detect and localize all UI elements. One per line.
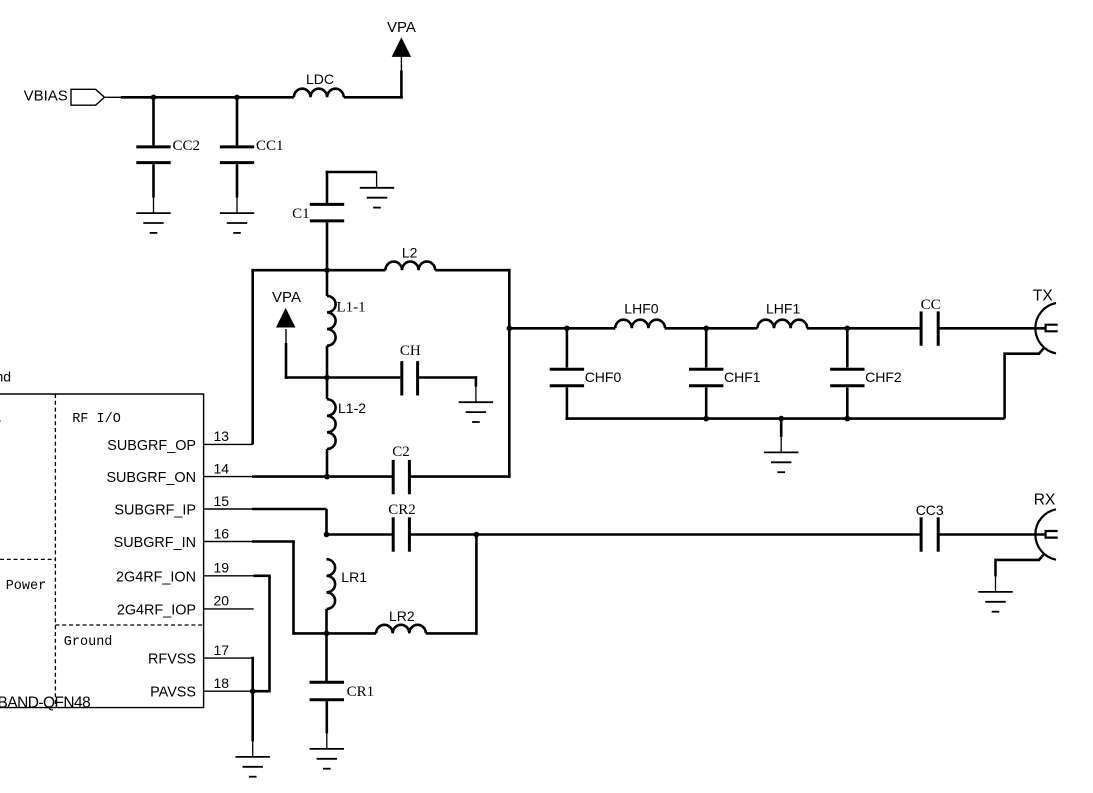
capacitor CC3 [916, 502, 944, 552]
inductor L1-2 [327, 378, 366, 450]
svg-text:CC3: CC3 [916, 502, 944, 518]
wire left rail pin13 [251, 269, 254, 445]
IC label band [0, 369, 11, 385]
capacitor C1 [292, 204, 344, 221]
pin 18 PAVSS [150, 675, 253, 701]
svg-text:14: 14 [214, 460, 230, 476]
capacitor CC2 [136, 138, 200, 162]
capacitor CC1 [220, 138, 284, 162]
IC label Power [6, 579, 47, 594]
wire TX line [509, 327, 1045, 330]
wire L1-1 to node [326, 346, 329, 378]
svg-text:13: 13 [214, 428, 230, 444]
wire bottom rail [252, 475, 511, 478]
ground below CR1 [310, 749, 344, 769]
svg-text:18: 18 [214, 675, 230, 691]
svg-text:VPA: VPA [387, 19, 416, 36]
IC label 1 [0, 412, 1, 427]
svg-text:CH: CH [400, 343, 421, 359]
IC label Ground [64, 635, 113, 650]
node junction CC2 [151, 95, 157, 101]
wire top rail [251, 269, 510, 272]
wire C1 to top rail [326, 223, 329, 271]
wire to CC1 [236, 97, 239, 145]
ground below CC1 [220, 213, 254, 233]
wire pin16 path [252, 542, 327, 635]
wire L1-2 to bottom rail [326, 449, 329, 477]
node junction L1 CH VPA [324, 375, 330, 381]
svg-text:SUBGRF_ON: SUBGRF_ON [106, 470, 196, 486]
svg-text:SUBGRF_IP: SUBGRF_IP [114, 503, 196, 519]
svg-text:CC: CC [921, 297, 941, 313]
inductor LHF0 [615, 301, 665, 329]
svg-text:CC1: CC1 [256, 138, 284, 154]
node junction CHF1 [703, 326, 709, 332]
node junction CHF0 [564, 326, 570, 332]
inductor LR1 [327, 559, 368, 609]
svg-text:PAVSS: PAVSS [150, 685, 196, 701]
wire VBIAS to LDC [105, 96, 294, 98]
svg-text:SUBGRF_IN: SUBGRF_IN [114, 535, 196, 551]
node junction top rail C1 [324, 267, 330, 273]
wire CH to ground [419, 376, 477, 402]
inductor L2 [385, 245, 435, 271]
svg-text:CHF1: CHF1 [724, 369, 761, 385]
connector TX [1033, 288, 1058, 354]
svg-text:LDC: LDC [306, 71, 334, 87]
pin 17 RFVSS [148, 642, 253, 668]
capacitor CC [921, 297, 941, 346]
wire pin14 net [0, 0, 1, 1]
svg-text:1: 1 [0, 412, 1, 427]
wire node to CH [327, 376, 400, 379]
IC section divider vertical dashed [54, 394, 56, 708]
connector RX [1034, 492, 1058, 560]
svg-text:2G4RF_IOP: 2G4RF_IOP [117, 602, 196, 618]
node junction CR2 right [474, 532, 480, 538]
inductor LDC [294, 71, 344, 98]
wire node to CR2 [327, 533, 394, 536]
inductor LHF1 [757, 301, 807, 329]
svg-text:Ground: Ground [64, 635, 113, 650]
pin 15 SUBGRF_IP [114, 493, 252, 519]
wire CR1 to ground [325, 701, 328, 749]
wire pin17 net to ground [251, 657, 254, 757]
svg-text:L1-1: L1-1 [337, 299, 366, 315]
IC label RF I/O [72, 412, 121, 427]
wire RX shield to ground [996, 554, 1045, 592]
pin 19 2G4RF_ION [116, 560, 253, 586]
svg-text:RF I/O: RF I/O [72, 412, 121, 427]
inductor LR2 [376, 608, 426, 633]
svg-text:VPA: VPA [272, 289, 301, 306]
wire filter ground bus [566, 417, 1005, 420]
wire CC1 to ground [236, 164, 239, 213]
wire bus to TX shield [1005, 347, 1045, 418]
wire CC2 to ground [152, 164, 155, 213]
svg-text:CHF2: CHF2 [865, 369, 902, 385]
wire pin15 to CR2 [252, 509, 327, 536]
svg-text:2G4RF_ION: 2G4RF_ION [116, 569, 196, 585]
capacitor CH [400, 343, 421, 396]
svg-text:20: 20 [214, 593, 230, 609]
pin 14 SUBGRF_ON [106, 460, 252, 486]
inductor L1-1 [327, 270, 366, 346]
svg-text:Power: Power [6, 579, 47, 594]
svg-text:CR2: CR2 [388, 502, 416, 518]
svg-text:C2: C2 [392, 444, 410, 460]
capacitor CHF2 [830, 328, 902, 420]
node junction bus ground tap [778, 416, 784, 422]
IC label BAND-QFN48 [0, 694, 90, 711]
capacitor C2 [392, 444, 410, 494]
power VPA 2 [272, 289, 301, 327]
wire node to LR2 [327, 632, 377, 635]
node junction LR2 left [324, 631, 330, 637]
wire LR1 to LR2 line [325, 609, 328, 633]
wire pin19 net [253, 575, 270, 693]
svg-text:nd: nd [0, 369, 11, 385]
capacitor CR1 [310, 682, 375, 700]
svg-text:L1-2: L1-2 [338, 400, 366, 416]
wire bus ground tap [780, 419, 783, 453]
wire right rail [508, 269, 511, 478]
svg-text:L2: L2 [402, 245, 418, 261]
IC section divider ground dashed [55, 624, 203, 626]
node junction bus CHF2 [845, 416, 851, 422]
wire to CC2 [152, 97, 155, 145]
svg-text:CHF0: CHF0 [585, 369, 622, 385]
wire LR2 to CR2 line [426, 535, 477, 635]
node junction bus CHF1 [703, 416, 709, 422]
port VBIAS [24, 88, 105, 106]
node junction CHF2 [845, 326, 851, 332]
wire C1 top to ground [326, 171, 377, 203]
ground below bus [764, 452, 798, 472]
node junction right rail TX tap [507, 326, 513, 332]
svg-text:LR1: LR1 [341, 569, 367, 585]
capacitor CHF1 [689, 328, 761, 420]
pin 13 SUBGRF_OP [107, 428, 252, 454]
svg-text:RX: RX [1034, 492, 1056, 509]
pin 20 2G4RF_IOP [117, 593, 254, 619]
svg-text:C1: C1 [292, 206, 310, 222]
wire VPA 2 to node [285, 329, 327, 379]
svg-text:17: 17 [214, 642, 230, 658]
ground pins 17 18 [236, 757, 270, 777]
pin 16 SUBGRF_IN [114, 525, 253, 551]
svg-text:VBIAS: VBIAS [24, 88, 68, 105]
wire node to CR1 [325, 633, 328, 681]
svg-text:RFVSS: RFVSS [148, 652, 196, 668]
wire LDC to VPA [344, 56, 403, 99]
svg-text:BAND-QFN48: BAND-QFN48 [0, 694, 90, 711]
svg-text:15: 15 [214, 493, 230, 509]
power VPA [387, 19, 416, 57]
svg-text:LR2: LR2 [389, 608, 415, 624]
wire CR2 to RX line [409, 533, 1045, 536]
svg-text:TX: TX [1033, 288, 1053, 305]
ground below CC2 [136, 213, 170, 233]
svg-text:19: 19 [214, 560, 230, 576]
capacitor CR2 [388, 502, 416, 552]
node junction bottom rail [324, 474, 330, 480]
svg-text:CR1: CR1 [347, 684, 375, 700]
ground RX [978, 592, 1012, 612]
IC block outline [0, 394, 204, 708]
ground right of CH [459, 402, 493, 422]
node junction CC1 [234, 95, 240, 101]
svg-text:CC2: CC2 [173, 138, 201, 154]
capacitor CHF0 [550, 328, 622, 420]
svg-text:16: 16 [214, 525, 230, 541]
svg-text:SUBGRF_OP: SUBGRF_OP [107, 438, 196, 454]
node junction CR2 left [324, 532, 330, 538]
node junction pin18 [250, 688, 256, 694]
ground top right of C1 [360, 188, 394, 208]
svg-text:LHF0: LHF0 [624, 301, 658, 317]
svg-text:LHF1: LHF1 [766, 301, 800, 317]
IC section divider power dashed [0, 558, 55, 560]
